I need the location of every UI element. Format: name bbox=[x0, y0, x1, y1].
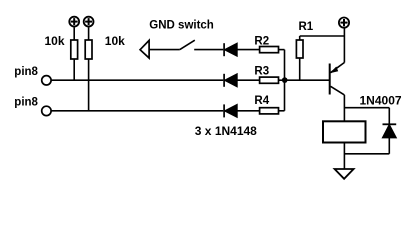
wire: R1 top lead bbox=[299, 36, 301, 40]
relay coil K1 bbox=[323, 121, 366, 142]
switch lever (open SPST) bbox=[180, 40, 195, 49]
wire: relay bottom to ground bbox=[343, 143, 345, 170]
wire: 1N4007 top lead bbox=[388, 108, 390, 125]
wire: bus (vertical, R2/R3/R4 common) bbox=[284, 50, 286, 111]
wire: R3 to bus bbox=[279, 79, 285, 81]
resistor R2 bbox=[260, 47, 279, 53]
ground symbol bbox=[335, 169, 354, 179]
svg-text:pin8: pin8 bbox=[14, 66, 38, 78]
wire: switch fixed contact to D1 bbox=[194, 49, 223, 51]
wire: 1N4007 bottom lead bbox=[388, 138, 390, 154]
wire: return from 1N4007 to relay bottom bbox=[344, 153, 389, 155]
resistor 10k (right) bbox=[85, 40, 92, 59]
resistor R3 bbox=[260, 77, 279, 83]
terminal pin8 (top) bbox=[42, 76, 51, 85]
power +V symbol (top right) bbox=[339, 18, 349, 28]
diode D1 1N4148 (row 1) bbox=[224, 43, 237, 56]
svg-text:10k: 10k bbox=[45, 34, 65, 48]
wire: base wire from bus to Q1 bbox=[285, 79, 330, 81]
svg-text:10k: 10k bbox=[105, 34, 125, 48]
wire: left +V to left 10k top bbox=[73, 27, 75, 40]
wire: +V down to emitter (crosses R1 rail tee) bbox=[343, 28, 345, 62]
wire: R4 to bus corner bbox=[279, 110, 285, 112]
transistor Q1 (PNP) bbox=[330, 63, 345, 95]
wire: right 10k bottom across row-2 to row-3 node bbox=[88, 59, 90, 111]
wire: collector down to relay bbox=[343, 95, 345, 121]
svg-text:pin8: pin8 bbox=[14, 97, 38, 109]
wire: D1 to R2 bbox=[237, 49, 260, 51]
resistor 10k (left) bbox=[71, 40, 78, 59]
power +V symbol (right, over right 10k) bbox=[84, 17, 94, 27]
wire: R1 bottom lead to base wire bbox=[299, 58, 301, 80]
svg-text:3 x 1N4148: 3 x 1N4148 bbox=[195, 124, 257, 138]
input arrow (GND switch input) bbox=[140, 40, 149, 58]
wire: R2 to bus corner bbox=[279, 49, 285, 51]
svg-text:R4: R4 bbox=[254, 95, 269, 107]
resistor R4 bbox=[260, 108, 279, 114]
wire: arrow to switch pole bbox=[149, 49, 180, 51]
svg-text:1N4007: 1N4007 bbox=[360, 94, 402, 108]
node: bus/base junction dot bbox=[282, 77, 288, 83]
resistor R1 bbox=[296, 40, 303, 58]
svg-text:R2: R2 bbox=[254, 36, 269, 48]
svg-text:R3: R3 bbox=[254, 66, 269, 78]
wire: +V rail to R1 (horizontal) bbox=[300, 35, 345, 37]
wire: D2 to R3 bbox=[237, 79, 260, 81]
power +V symbol (left, over left 10k) bbox=[69, 17, 79, 27]
diode D2 1N4148 (row 2) bbox=[224, 74, 237, 87]
svg-text:R1: R1 bbox=[299, 21, 314, 33]
wire: D3 to R4 bbox=[237, 110, 260, 112]
wire: row 3 from pin8 to D3 bbox=[51, 110, 223, 112]
terminal pin8 (bottom) bbox=[42, 106, 51, 115]
svg-text:GND switch: GND switch bbox=[149, 20, 214, 32]
diode D3 1N4148 (row 3) bbox=[224, 104, 237, 117]
wire: right +V to right 10k top bbox=[88, 27, 90, 40]
wire: left 10k bottom to row-2 node bbox=[73, 59, 75, 80]
wire: row 2 from pin8 to D2 bbox=[51, 79, 223, 81]
wire: branch to 1N4007 (horizontal) bbox=[344, 107, 389, 109]
diode D5 1N4007 (flyback) bbox=[383, 124, 397, 137]
